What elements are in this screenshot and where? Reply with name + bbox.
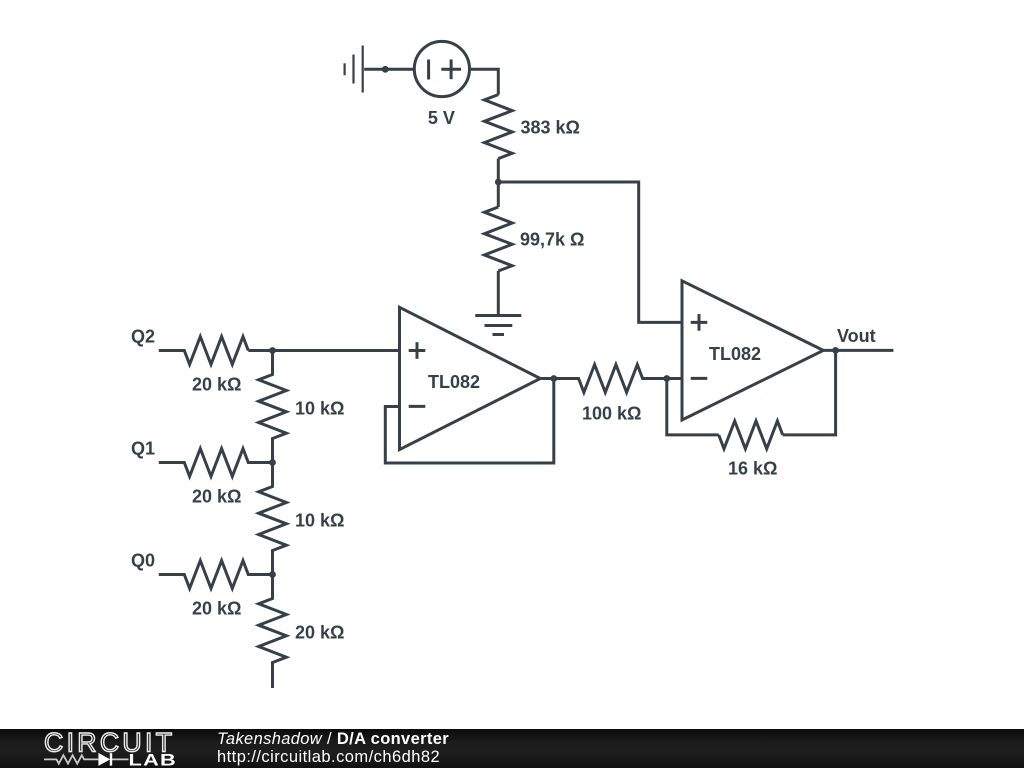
svg-text:10 kΩ: 10 kΩ: [295, 511, 344, 531]
svg-text:Takenshadow / D/A converter: Takenshadow / D/A converter: [217, 730, 449, 748]
ground GND2: [475, 316, 521, 335]
junction U1 output node: [550, 375, 557, 382]
wire node A to U2 + input: [498, 182, 682, 322]
voltage source V1: [414, 41, 469, 96]
svg-text:20 kΩ: 20 kΩ: [192, 599, 241, 619]
op-amp U1: [400, 307, 541, 449]
op-amp U2: [682, 281, 823, 420]
svg-text:LAB: LAB: [129, 751, 178, 768]
wire U2 - node down: [667, 379, 719, 435]
wire node A to R2: [497, 182, 500, 207]
svg-text:16 kΩ: 16 kΩ: [728, 459, 777, 479]
ground GND1: [345, 46, 363, 93]
svg-text:Q2: Q2: [131, 326, 155, 346]
junction node A: [495, 179, 502, 186]
resistor R8 20k (to bottom): [259, 575, 287, 689]
resistor R1 383k: [484, 95, 512, 159]
U1 + input symbol: [409, 342, 426, 359]
resistor R6 10k: [259, 463, 287, 575]
svg-text:TL082: TL082: [428, 372, 480, 392]
svg-text:TL082: TL082: [709, 344, 761, 364]
svg-text:http://circuitlab.com/ch6dh82: http://circuitlab.com/ch6dh82: [217, 748, 440, 766]
wire R1 to node A: [497, 159, 500, 182]
svg-text:383 kΩ: 383 kΩ: [521, 117, 580, 137]
resistor R3 20k (Q2): [159, 337, 249, 365]
wire U2 output Vout: [823, 349, 893, 352]
junction Q0 node: [269, 571, 276, 578]
svg-text:99,7k Ω: 99,7k Ω: [520, 230, 584, 250]
resistor R4 10k: [259, 351, 287, 463]
wire V1 to R1: [470, 69, 499, 94]
wire U1 output: [540, 377, 554, 380]
footer bar: [0, 729, 1024, 768]
resistor R9 100k: [554, 365, 667, 393]
junction Vout node: [832, 347, 839, 354]
wire to U2 - input: [667, 377, 682, 380]
resistor R7 20k (Q0): [159, 561, 273, 589]
svg-text:20 kΩ: 20 kΩ: [192, 487, 241, 507]
resistor R5 20k (Q1): [159, 449, 273, 477]
svg-text:20 kΩ: 20 kΩ: [295, 623, 344, 643]
resistor R10 16k: [719, 421, 783, 449]
junction U2 - input node: [663, 375, 670, 382]
U1 - input symbol: [409, 405, 426, 408]
logo resistor-diode wire: [44, 755, 129, 763]
svg-text:20 kΩ: 20 kΩ: [192, 375, 241, 395]
svg-text:10 kΩ: 10 kΩ: [295, 399, 344, 419]
wire GND1 to V1: [364, 68, 414, 71]
resistor R2 99.7k: [484, 207, 512, 271]
logo diode: [98, 753, 112, 766]
svg-text:Q1: Q1: [131, 438, 155, 458]
junction ground node: [382, 66, 389, 73]
svg-text:Vout: Vout: [837, 326, 876, 346]
U2 - input symbol: [691, 377, 708, 380]
svg-text:Q0: Q0: [131, 550, 155, 570]
junction Q2 node: [269, 347, 276, 354]
U2 + input symbol: [691, 314, 708, 331]
svg-text:100 kΩ: 100 kΩ: [582, 403, 641, 423]
wire R2 to GND2: [497, 271, 500, 316]
wire R10 to output: [783, 350, 836, 435]
wire U1 feedback (output to - input): [385, 379, 554, 464]
wire Q2 node to U1 + input: [248, 349, 399, 352]
junction Q1 node: [269, 459, 276, 466]
svg-text:5 V: 5 V: [428, 108, 455, 128]
